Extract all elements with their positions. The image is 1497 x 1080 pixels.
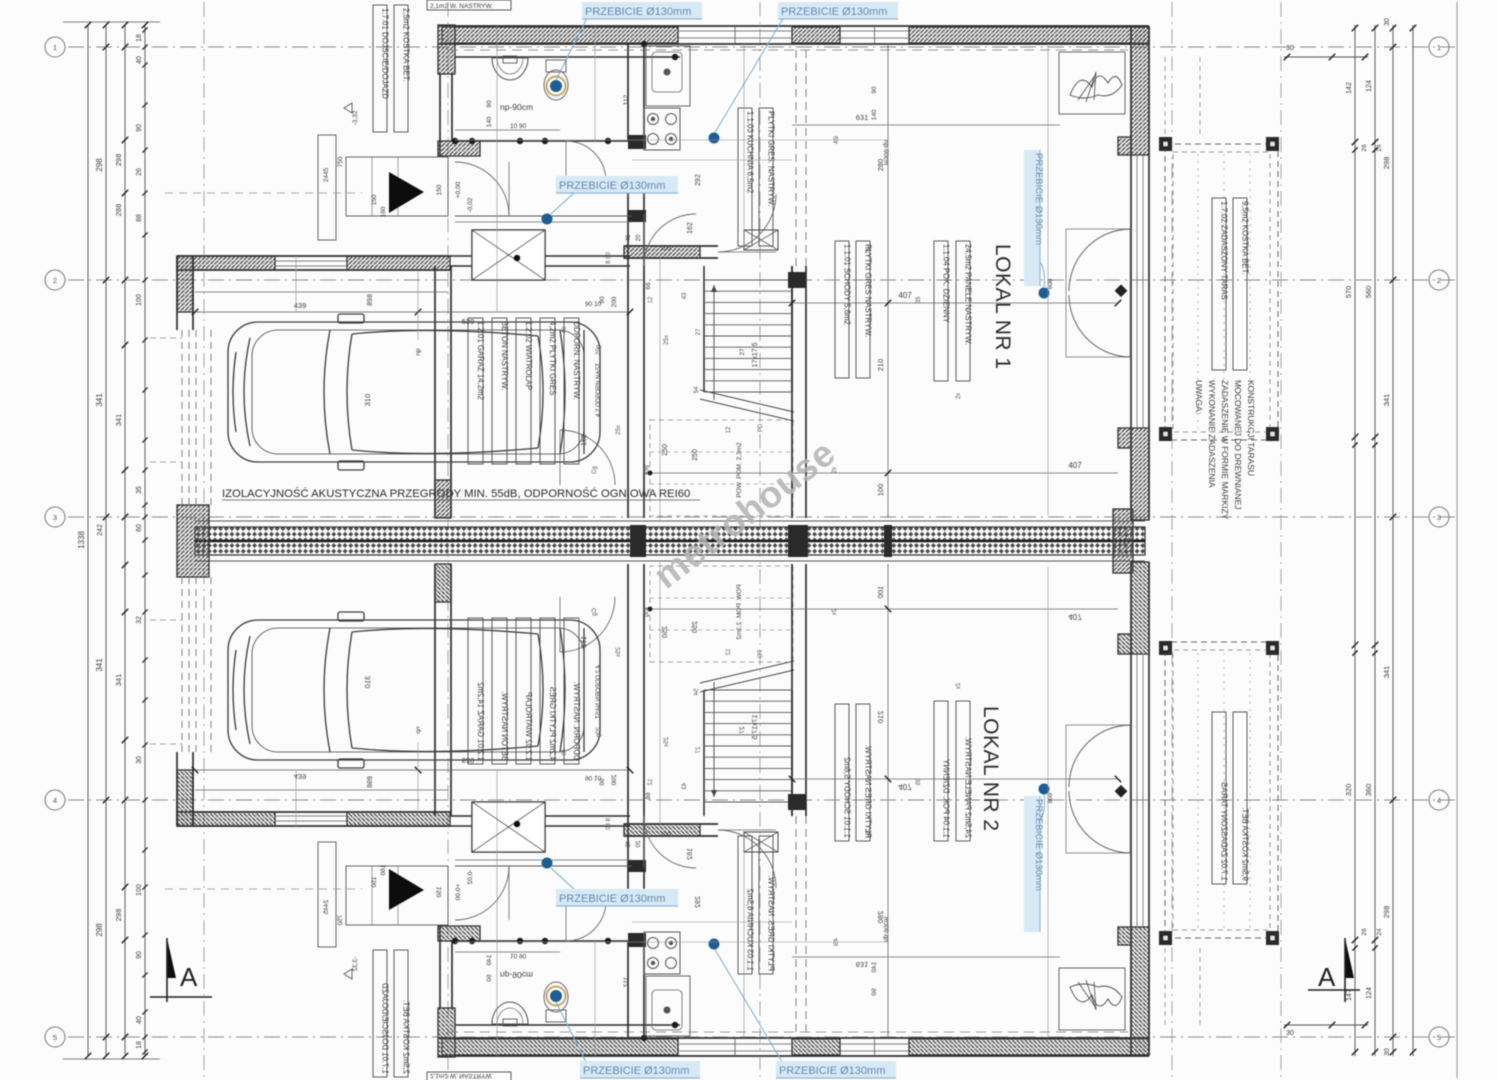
svg-text:30: 30	[1384, 1048, 1391, 1056]
right dimension chain	[1354, 25, 1356, 1056]
entry steps	[455, 215, 632, 217]
svg-text:4: 4	[1437, 796, 1441, 805]
svg-text:147: 147	[1346, 989, 1353, 1001]
svg-text:100: 100	[876, 484, 885, 497]
garage interior dim lines	[195, 291, 448, 293]
svg-text:27: 27	[696, 328, 702, 335]
svg-text:40: 40	[136, 56, 143, 64]
middle wall y256 segment right of garage	[450, 255, 630, 257]
sink	[492, 58, 528, 80]
bath block left wall	[438, 25, 455, 74]
svg-text:242: 242	[97, 524, 104, 536]
stairs	[703, 266, 705, 392]
outer top wall	[177, 255, 450, 257]
svg-text:341: 341	[1382, 394, 1391, 407]
svg-text:-0,02: -0,02	[467, 197, 474, 212]
svg-text:PLYTKI GRES. NASTRYW.: PLYTKI GRES. NASTRYW.	[767, 111, 776, 206]
lower unit plan (mirror)	[150, 562, 1279, 1080]
svg-text:298: 298	[95, 923, 104, 937]
svg-text:150: 150	[371, 194, 378, 205]
svg-text:30: 30	[1286, 45, 1294, 52]
svg-text:PRZEBICIE Ø130mm: PRZEBICIE Ø130mm	[1033, 153, 1044, 245]
svg-text:30: 30	[1286, 1030, 1294, 1037]
svg-text:PRZEBICIE Ø130mm: PRZEBICIE Ø130mm	[779, 1065, 885, 1077]
svg-text:ODPORN. NASTRYW.: ODPORN. NASTRYW.	[572, 321, 581, 400]
svg-text:1.1.04 POK. DZIENNY: 1.1.04 POK. DZIENNY	[942, 244, 951, 324]
svg-text:18: 18	[136, 34, 143, 42]
svg-text:898: 898	[367, 294, 374, 306]
svg-text:KONSTRUKCJI TARASU: KONSTRUKCJI TARASU	[1246, 380, 1256, 476]
section marker A right	[1345, 938, 1354, 978]
svg-text:PD: PD	[758, 423, 764, 432]
svg-text:2: 2	[1437, 276, 1441, 285]
svg-text:28: 28	[866, 246, 872, 253]
blue dot right	[1039, 288, 1050, 299]
svg-text:1338: 1338	[77, 531, 86, 549]
svg-text:26: 26	[1361, 928, 1368, 936]
svg-text:20: 20	[636, 234, 642, 241]
svg-text:570: 570	[1344, 286, 1353, 299]
svg-text:+0,00: +0,00	[455, 181, 462, 198]
bathroom	[455, 56, 680, 58]
toilet + blue dot	[546, 60, 566, 72]
interior door near stairs	[644, 214, 696, 266]
svg-text:3: 3	[53, 513, 57, 522]
svg-text:5: 5	[1437, 1033, 1441, 1042]
kitchen / stair hall wall	[627, 44, 629, 140]
svg-text:4,2 ODPORN NAST: 4,2 ODPORN NAST	[596, 363, 602, 417]
svg-text:1.2.02 WIATROLAP: 1.2.02 WIATROLAP	[524, 321, 533, 390]
living room labels	[835, 241, 849, 378]
section marker A left	[167, 938, 176, 978]
svg-text:360: 360	[1364, 784, 1373, 797]
svg-text:np: np	[415, 348, 422, 356]
svg-text:1.1.01 SCHODY 5,6m2: 1.1.01 SCHODY 5,6m2	[843, 244, 852, 325]
svg-text:45g: 45g	[644, 465, 650, 475]
svg-text:5: 5	[53, 1033, 57, 1042]
svg-text:4: 4	[53, 796, 57, 805]
svg-text:1: 1	[53, 43, 57, 52]
entry door arc	[455, 162, 509, 216]
svg-text:298: 298	[1382, 157, 1391, 170]
terrace	[1165, 144, 1278, 440]
thin extension lines	[496, 26, 498, 312]
svg-text:27: 27	[739, 348, 746, 356]
bath door arc	[566, 141, 606, 181]
svg-text:32: 32	[136, 616, 143, 624]
svg-text:PRZEBICIE Ø130mm: PRZEBICIE Ø130mm	[781, 6, 887, 18]
svg-text:341: 341	[1382, 666, 1391, 679]
svg-text:631: 631	[856, 113, 869, 122]
svg-text:30: 30	[1384, 18, 1391, 26]
svg-text:292: 292	[695, 174, 702, 186]
svg-text:20g: 20g	[596, 345, 602, 355]
svg-text:PRZEBICIE Ø130mm: PRZEBICIE Ø130mm	[559, 180, 665, 192]
french window leaves	[1066, 229, 1130, 357]
svg-text:24,5m2 PANELE NASTRYW.: 24,5m2 PANELE NASTRYW.	[964, 244, 973, 345]
upper unit plan	[150, 0, 1279, 520]
svg-text:162: 162	[687, 222, 694, 234]
svg-text:A: A	[180, 962, 198, 992]
svg-text:40: 40	[562, 326, 568, 333]
svg-text:2445: 2445	[323, 167, 330, 182]
svg-text:1.1.03 KUCHNIA 6,5m2: 1.1.03 KUCHNIA 6,5m2	[746, 111, 755, 193]
svg-text:407: 407	[1068, 461, 1082, 470]
corridor wall between garage and entry	[434, 266, 436, 518]
svg-text:298: 298	[95, 158, 104, 172]
svg-text:26: 26	[1361, 144, 1368, 152]
blue annotation labels (upright, both units)	[582, 2, 702, 19]
svg-text:100: 100	[136, 294, 143, 306]
svg-text:341: 341	[114, 674, 123, 687]
svg-text:18: 18	[136, 1041, 143, 1049]
svg-text:250: 250	[662, 444, 669, 456]
small box with X at stair top	[744, 230, 778, 250]
svg-text:12: 12	[648, 296, 654, 303]
svg-text:407: 407	[898, 291, 912, 300]
small top-right chain	[1284, 56, 1368, 58]
landing dashed	[650, 420, 793, 516]
svg-text:160: 160	[380, 206, 387, 217]
svg-text:88: 88	[136, 214, 143, 222]
svg-text:35: 35	[136, 486, 143, 494]
svg-text:np-90cm: np-90cm	[500, 102, 533, 112]
svg-text:341: 341	[114, 414, 123, 427]
corner furniture + plant	[1059, 52, 1125, 114]
car	[228, 314, 600, 470]
svg-text:439: 439	[294, 301, 307, 310]
inner room door + labels	[560, 430, 615, 485]
stair right wall	[791, 266, 793, 518]
svg-text:2x: 2x	[956, 393, 962, 399]
svg-text:90: 90	[136, 124, 143, 132]
kitchen counter/sink	[646, 46, 690, 106]
svg-text:100: 100	[136, 884, 143, 896]
svg-text:25x: 25x	[664, 335, 670, 345]
svg-text:Cg: Cg	[592, 466, 598, 474]
svg-text:100: 100	[660, 245, 671, 252]
svg-text:2: 2	[53, 276, 57, 285]
svg-text:150: 150	[436, 184, 443, 195]
svg-text:750: 750	[337, 156, 344, 167]
svg-text:90: 90	[136, 951, 143, 959]
stair break line	[700, 390, 794, 412]
svg-text:288: 288	[114, 204, 123, 217]
svg-text:3: 3	[1437, 513, 1441, 522]
svg-text:45: 45	[626, 234, 632, 241]
blue dot entry	[542, 214, 553, 225]
svg-text:4,2m2 PLYTKI GRES: 4,2m2 PLYTKI GRES	[548, 321, 557, 395]
svg-text:43: 43	[682, 292, 688, 299]
party wall	[195, 520, 1145, 522]
svg-text:9,5m2 KOSTKA BET.: 9,5m2 KOSTKA BET.	[1241, 201, 1250, 275]
svg-text:ZADASZENIE W FORMIE MARKIZY: ZADASZENIE W FORMIE MARKIZY	[1220, 380, 1230, 520]
svg-text:200: 200	[611, 296, 618, 307]
svg-text:35: 35	[916, 296, 922, 303]
party wall end caps	[177, 505, 209, 577]
svg-text:90: 90	[871, 86, 878, 94]
svg-text:140: 140	[871, 109, 878, 120]
svg-text:PRZEBICIE Ø130mm: PRZEBICIE Ø130mm	[585, 6, 691, 18]
left dimension chain	[87, 25, 89, 1056]
svg-text:PRZEBICIE Ø130mm: PRZEBICIE Ø130mm	[559, 893, 665, 905]
svg-text:140: 140	[486, 116, 493, 127]
svg-text:560: 560	[1364, 286, 1373, 299]
svg-text:8 80: 8 80	[606, 252, 612, 264]
svg-text:60: 60	[136, 524, 143, 532]
svg-text:PLYTKI GRES NASTRYW.: PLYTKI GRES NASTRYW.	[864, 244, 873, 337]
svg-text:np-90cm: np-90cm	[882, 140, 889, 165]
svg-text:LOKAL NR 2: LOKAL NR 2	[979, 706, 1002, 832]
porch + step + arrow	[346, 157, 448, 216]
svg-text:1.2.01 GARAZ 14,2m2: 1.2.01 GARAZ 14,2m2	[476, 321, 485, 400]
right outer wall	[1130, 26, 1132, 520]
grid bubbles	[45, 37, 65, 57]
svg-text:17x17,5: 17x17,5	[752, 342, 759, 367]
svg-text:10 90: 10 90	[510, 123, 527, 130]
garage labels over car	[468, 318, 483, 464]
svg-text:320: 320	[1344, 784, 1353, 797]
garage left wall	[177, 256, 193, 312]
stove	[644, 108, 680, 150]
svg-text:40: 40	[136, 1016, 143, 1024]
svg-text:250: 250	[692, 449, 699, 461]
svg-text:298: 298	[114, 909, 123, 922]
svg-text:2,1m2 W. NASTRYW.: 2,1m2 W. NASTRYW.	[430, 3, 493, 10]
grid axes	[68, 46, 1455, 48]
svg-text:298: 298	[114, 154, 123, 167]
svg-text:66: 66	[645, 282, 652, 290]
blue leader lines	[556, 16, 588, 80]
svg-text:142: 142	[1346, 82, 1353, 94]
kitchen/living wall	[624, 245, 718, 247]
garage door dashed	[181, 330, 183, 505]
svg-text:112: 112	[623, 94, 630, 105]
svg-text:310: 310	[363, 394, 372, 407]
svg-text:210: 210	[876, 359, 885, 372]
svg-text:WYKONANIE ZADASZENIA: WYKONANIE ZADASZENIA	[1207, 380, 1217, 488]
svg-text:341: 341	[95, 658, 104, 672]
svg-text:LOKAL NR 1: LOKAL NR 1	[991, 244, 1014, 370]
svg-text:A: A	[1318, 962, 1336, 992]
svg-text:30: 30	[136, 756, 143, 764]
svg-text:BETON NASTRYW.: BETON NASTRYW.	[500, 321, 509, 390]
svg-text:341: 341	[95, 393, 104, 407]
svg-text:25x: 25x	[616, 425, 622, 435]
living room dim lines	[887, 44, 889, 518]
entry walkway boxed labels	[373, 5, 387, 132]
svg-text:24: 24	[1376, 928, 1383, 936]
svg-text:1.7.01 DOJSCIE/DOJAZD: 1.7.01 DOJSCIE/DOJAZD	[381, 8, 390, 99]
svg-text:124: 124	[1366, 80, 1373, 92]
svg-text:1.7.02 ZADASZONY TARAS: 1.7.02 ZADASZONY TARAS	[1220, 201, 1229, 300]
svg-text:124: 124	[1366, 987, 1373, 999]
svg-text:26: 26	[136, 168, 143, 176]
svg-text:90 10: 90 10	[585, 301, 602, 308]
svg-text:-3,32: -3,32	[352, 110, 359, 125]
top wall of house	[438, 25, 1149, 27]
svg-text:MOCOWANEJ DO DREWNIANEJ: MOCOWANEJ DO DREWNIANEJ	[1233, 380, 1243, 510]
svg-text:12: 12	[726, 426, 732, 433]
kitchen labels	[738, 108, 752, 246]
svg-text:24: 24	[1376, 144, 1383, 152]
svg-text:1: 1	[1437, 43, 1441, 52]
svg-text:2,5m2 KOSTKA BET.: 2,5m2 KOSTKA BET.	[402, 8, 411, 82]
svg-text:IZOLACYJNOŚĆ AKUSTYCZNA PRZEGR: IZOLACYJNOŚĆ AKUSTYCZNA PRZEGRODY MIN. 5…	[222, 487, 690, 500]
svg-text:UWAGA:: UWAGA:	[1194, 380, 1204, 414]
svg-text:298: 298	[1382, 906, 1391, 919]
svg-text:PRZEBICIE Ø130mm: PRZEBICIE Ø130mm	[583, 1065, 689, 1077]
svg-text:PRZEBICIE Ø130mm: PRZEBICIE Ø130mm	[1033, 799, 1044, 891]
shaft with X	[472, 230, 545, 280]
svg-text:90: 90	[486, 100, 493, 108]
svg-text:54: 54	[694, 386, 700, 393]
